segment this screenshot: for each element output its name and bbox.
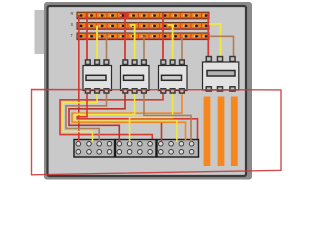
breaker CB4 main (203, 56, 239, 92)
wire brown feed CB4 from busbar T end (209, 36, 234, 58)
wire entry stubs into terminal blocks (79, 139, 191, 142)
wire bundle: red U1 CB3-L1 to block2 (60, 92, 163, 156)
svg-text:S: S (71, 22, 74, 27)
svg-text:R: R (71, 11, 74, 16)
breaker CB3 (159, 59, 188, 94)
wire bundle: red U7 CB1-L1 long run (77, 92, 197, 141)
busbar R (77, 12, 209, 19)
wire red feed CB3 (162, 13, 164, 63)
wire yellow feed CB2 (130, 25, 135, 63)
svg-text:T: T (71, 33, 74, 38)
wire brown feed CB1 (106, 36, 108, 64)
wire brown CB2-L3 to block3 (144, 92, 191, 144)
enclosure inner panel (48, 6, 247, 176)
wire red stub to block3 terminal 1 (161, 123, 163, 144)
wire brown feed CB3 (181, 36, 183, 64)
wire red feed CB4 (busbar end cap) (207, 13, 209, 60)
wire yellow feed CB3 (168, 25, 173, 63)
wire yellow feed CB4 from busbar S end (209, 24, 221, 59)
wire red busbar R to terminal block 1 (78, 15, 80, 142)
wire red feed CB1 (86, 13, 88, 63)
orange bus drop 3 (231, 97, 238, 167)
enclosure hinge tab (35, 10, 45, 54)
breaker CB2 (121, 59, 150, 94)
terminal block 1 (74, 140, 115, 158)
wire bundle: dark red U4 CB2-L1 to block2 (69, 92, 125, 144)
wire bundle: yellow U2 CB1-L2 to block1 (63, 92, 97, 144)
terminal block 3 (157, 140, 199, 158)
breaker CB1 (83, 59, 112, 94)
wire yellow feed CB1 (96, 26, 98, 64)
wire brown feed CB2 (143, 36, 145, 64)
orange bus drop 1 (204, 97, 211, 167)
wire bundle: orange U5 CB3-L3 to block3 (72, 92, 186, 144)
wire bundle: brown U3 CB1-L3 to block1 (66, 92, 107, 144)
wire yellow CB3-L2 to block2 (130, 92, 173, 144)
orange bus drop 2 (218, 97, 225, 167)
terminal block 2 (116, 140, 157, 158)
red annotation rectangle (32, 90, 282, 175)
busbar S (77, 23, 209, 30)
busbar T (77, 33, 209, 40)
wire bundle: yellow U6 CB2-L2 to block2 (75, 92, 177, 144)
enclosure outer frame (44, 2, 252, 180)
wire red feed CB2 (124, 13, 126, 63)
